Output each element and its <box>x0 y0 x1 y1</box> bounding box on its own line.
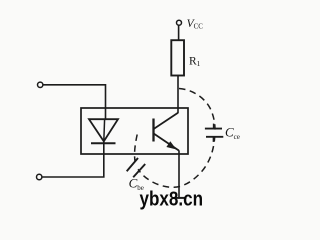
svg-text:Cce: Cce <box>225 125 240 141</box>
wire diode cathode to input return terminal <box>42 143 103 177</box>
parasitic capacitance boundary (dashed) <box>135 89 215 188</box>
svg-text:ybx8.cn: ybx8.cn <box>140 189 204 211</box>
wire R1 to collector <box>177 76 179 114</box>
resistor R1 <box>171 40 184 75</box>
node input return terminal <box>37 174 42 179</box>
wire Vcc to R1 <box>178 25 180 40</box>
transistor Q1 (phototransistor) <box>154 113 179 151</box>
optocoupler package box U1 <box>81 108 188 154</box>
svg-text:VCC: VCC <box>187 18 204 31</box>
wire emitter down <box>178 150 180 198</box>
node input anode terminal <box>38 82 43 87</box>
svg-text:R1: R1 <box>189 55 201 68</box>
photodiode D1 <box>89 119 118 143</box>
node Vcc terminal <box>177 20 182 25</box>
wire anode terminal to diode <box>43 85 105 119</box>
capacitor Cbe <box>127 157 146 178</box>
wire through diode body <box>103 119 106 141</box>
capacitor Cce <box>203 124 225 142</box>
node emitter output terminal bar <box>174 197 186 199</box>
